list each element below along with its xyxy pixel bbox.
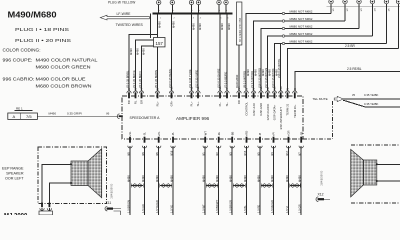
svg-text:M680 NOT M662: M680 NOT M662 [290, 17, 313, 21]
arrow LF-WIRE [100, 15, 149, 20]
wire 1.5 VI [288, 146, 290, 215]
svg-text:LF-WIRE: LF-WIRE [117, 12, 132, 16]
svg-text:TERM 31: TERM 31 [286, 103, 290, 115]
wire terminal 30 2.5 RE/BL [295, 72, 400, 91]
wire M680 NOT M662 #3 [261, 29, 359, 91]
wire terminal 1/5 drop [385, 4, 387, 44]
svg-text:GR: GR [140, 100, 144, 104]
wire speaker left + [42, 164, 71, 203]
svg-text:M680 COLOR BROWN: M680 COLOR BROWN [36, 84, 92, 89]
wire 1.5 BR/GN [129, 146, 131, 215]
wire terminal 1/3 drop [358, 4, 360, 29]
pin II/5 [259, 137, 261, 143]
wire bus to I/13 [219, 15, 221, 91]
svg-text:996 COUPE:: 996 COUPE: [3, 58, 33, 63]
svg-text:SPEAKER: SPEAKER [6, 172, 24, 176]
terminal 1/2 on bus [170, 0, 174, 4]
svg-text:M490: M490 [169, 175, 173, 182]
svg-text:RL+: RL+ [156, 101, 160, 107]
speaker right magnet [363, 160, 376, 185]
pin II/1 [204, 137, 206, 143]
node speaker right - [376, 180, 378, 182]
pin II/4 [273, 137, 275, 143]
svg-text:M490: M490 [192, 23, 196, 30]
amplifier 996 box [122, 96, 303, 139]
boundary dash-dot extension right of amplifier [303, 138, 333, 140]
pin I/3 [133, 91, 137, 93]
twisted pair splice 232.2-246.5 [232, 183, 234, 187]
svg-text:M490: M490 [254, 69, 258, 76]
svg-text:M680 NOT M662: M680 NOT M662 [290, 9, 313, 13]
terminal 1/4 top right [370, 0, 374, 4]
svg-text:M490: M490 [155, 175, 159, 182]
svg-text:M680 NOT M662: M680 NOT M662 [290, 32, 313, 36]
boundary door left (dash-dot) [38, 147, 107, 204]
wire terminal 1/2 drop [344, 4, 346, 21]
splice circle #4 [282, 35, 284, 37]
pin I/13 [218, 91, 222, 93]
svg-text:RHD M490: RHD M490 [235, 74, 239, 88]
svg-text:M490: M490 [202, 175, 206, 182]
terminal 1/3 on bus [189, 0, 193, 4]
svg-text:1.5 BR/WT: 1.5 BR/WT [215, 200, 219, 213]
speaker left magnet [71, 161, 88, 186]
connector X11 housing [114, 211, 121, 215]
pin I/16 [259, 91, 263, 93]
svg-text:SPEEDOMETER A: SPEEDOMETER A [130, 116, 161, 120]
svg-text:M490: M490 [129, 48, 133, 55]
wire 1.5 BR/GR [231, 146, 233, 215]
rail top right [327, 6, 400, 8]
wire 1.5 WT [204, 146, 206, 215]
svg-text:M490 COLOR NATURAL: M490 COLOR NATURAL [36, 58, 99, 63]
svg-text:SL+: SL+ [196, 101, 200, 106]
svg-text:PL+: PL+ [190, 101, 194, 106]
svg-text:2M4/5G/BY/D: 2M4/5G/BY/D [111, 183, 114, 198]
node speaker left + [70, 163, 72, 165]
boundary dash-dot vertical right [332, 101, 334, 139]
svg-text:2.5 RE/BL: 2.5 RE/BL [347, 67, 362, 71]
twisted pair splice 205.2-218.7 [205, 183, 207, 187]
twisted pair splice 158.7-173.0 [159, 183, 161, 187]
svg-text:+PI: +PI [272, 132, 276, 136]
svg-text:+SL: +SL [128, 131, 132, 136]
wire bus to 157 to I/5 [157, 15, 159, 38]
terminal 1/3 top right [357, 0, 361, 4]
splice circle #1 [282, 12, 284, 14]
splice circle #5 [282, 42, 284, 44]
terminal 1/5 top right [384, 0, 388, 4]
wire bus to I/12 [197, 15, 199, 91]
pin I/4 [139, 91, 143, 93]
svg-text:996 CABRIO:: 996 CABRIO: [3, 77, 35, 82]
wire terminal 1/1 drop [330, 4, 332, 14]
connector pin speaker left - [49, 203, 51, 208]
pin I/7 [225, 91, 229, 93]
svg-text:M490: M490 [270, 175, 274, 182]
svg-text:-SB: -SB [299, 132, 303, 137]
pin I/9 [244, 91, 248, 93]
wire M680 NOT M662 #2 [254, 21, 345, 91]
wire 1.5 YE [172, 146, 174, 215]
pin I/18 [279, 91, 283, 93]
svg-text:TERM 30+: TERM 30+ [293, 104, 297, 118]
svg-text:+RD: +RD [245, 131, 249, 137]
pin II/6 [158, 137, 160, 143]
svg-text:-PL: -PL [171, 132, 175, 137]
svg-text:-BB: -BB [230, 132, 234, 137]
svg-text:1.5 YE/GR: 1.5 YE/GR [155, 200, 159, 213]
svg-text:TEL MUTE: TEL MUTE [313, 97, 328, 101]
wire terminal 1/4 drop [371, 4, 373, 36]
svg-text:EEP RANGE: EEP RANGE [2, 167, 24, 171]
svg-text:2M4/5G/BY/D: 2M4/5G/BY/D [321, 170, 324, 185]
svg-text:M490: M490 [220, 23, 224, 30]
wire 157 to I/4 [142, 46, 154, 91]
svg-text:MJ 2000: MJ 2000 [4, 214, 28, 216]
wire 1.5 RE [259, 146, 261, 215]
connector pin speaker left + [41, 203, 43, 208]
svg-text:PL-: PL- [218, 102, 222, 106]
svg-text:7/5: 7/5 [26, 114, 32, 119]
node speaker left - [70, 182, 72, 184]
pin II/18 [172, 137, 174, 143]
svg-text:GSP+12V: GSP+12V [252, 103, 256, 116]
svg-text:0.35 YE/BK: 0.35 YE/BK [364, 93, 379, 97]
component box BP4 [237, 2, 242, 45]
pin II/3 [231, 137, 233, 143]
wire speaker right - [377, 180, 400, 182]
svg-text:1.5 BL: 1.5 BL [243, 205, 247, 213]
svg-text:M490: M490 [49, 112, 57, 116]
svg-text:BR: BR [127, 100, 131, 104]
svg-text:I/18 0.35 WT/BL: I/18 0.35 WT/BL [277, 58, 281, 78]
boundary door right top (dash-dot) [351, 144, 400, 146]
svg-text:M490: M490 [298, 175, 302, 182]
svg-text:PLUG I • 18 PINS: PLUG I • 18 PINS [15, 27, 69, 32]
svg-text:GSP-END: GSP-END [259, 103, 263, 116]
splice circle #2 [282, 20, 284, 22]
connector RE1 box [8, 113, 38, 119]
wire tel mute upper 0.35 YE/BK [343, 98, 400, 100]
terminal 1/2 top right [343, 0, 347, 4]
pin I/1 [285, 91, 289, 93]
pin II/8 [129, 137, 131, 143]
pin II/7 [300, 137, 302, 143]
pin II/15 [246, 137, 248, 143]
svg-text:M490: M490 [229, 175, 233, 182]
svg-text:1.5 BR/GN: 1.5 BR/GN [126, 200, 130, 213]
wire bus left drop [150, 14, 152, 39]
svg-text:1.5 GN: 1.5 GN [141, 204, 145, 213]
svg-text:M680 NOT M662: M680 NOT M662 [290, 39, 313, 43]
svg-text:1.5 BR/GR: 1.5 BR/GR [229, 200, 233, 213]
svg-text:M490: M490 [126, 175, 130, 182]
twisted pair splice 288.5-301.2 [289, 183, 291, 187]
pin I/1 [251, 91, 255, 93]
svg-text:1.5 VI: 1.5 VI [285, 206, 289, 213]
svg-text:M680 COLOR GREEN: M680 COLOR GREEN [36, 65, 91, 70]
boundary door right bottom (dash-dot) [351, 202, 400, 204]
svg-text:M490: M490 [256, 175, 260, 182]
wire terminal 31 2.5 BR [288, 48, 399, 90]
svg-text:X11: X11 [106, 201, 112, 205]
svg-text:GSP-CLOCK: GSP-CLOCK [266, 104, 270, 121]
svg-text:1.5 RE: 1.5 RE [256, 205, 260, 213]
wire 1.5 YE/GR [158, 146, 160, 215]
pin I/2 [293, 91, 297, 93]
svg-text:PLUG II • 20 PINS: PLUG II • 20 PINS [15, 38, 71, 43]
wire terminal 1/6 to 2.5 BR line [398, 4, 400, 49]
pin I/5 [155, 91, 159, 93]
terminal 1/1 top right [329, 0, 333, 4]
svg-text:A: A [12, 114, 15, 119]
svg-text:M490: M490 [136, 48, 140, 55]
svg-text:M490: M490 [142, 48, 146, 55]
svg-text:M490: M490 [243, 175, 247, 182]
pin II/2 [218, 137, 220, 143]
wire speaker right + [377, 163, 400, 165]
pin II/17 [288, 137, 290, 143]
svg-text:M490: M490 [141, 175, 145, 182]
terminal 1/6 on bus [224, 0, 228, 4]
svg-text:AMPLIFIER 996: AMPLIFIER 996 [176, 116, 210, 121]
svg-text:RE 1: RE 1 [16, 107, 23, 111]
splice box 157 [154, 38, 166, 47]
svg-text:M490: M490 [158, 21, 162, 28]
pin I/12 [196, 91, 200, 93]
svg-text:0.35 GR/PI: 0.35 GR/PI [67, 112, 82, 116]
wire bus to I/10 [171, 15, 173, 91]
svg-text:M490: M490 [285, 175, 289, 182]
connector X11 lug [105, 206, 107, 211]
svg-text:0.35 YE/BK: 0.35 YE/BK [364, 102, 379, 106]
svg-text:PLUG I/II YELLOW: PLUG I/II YELLOW [108, 1, 135, 5]
twisted pair splice 130.0-144.5 [130, 183, 132, 187]
svg-text:M490 COLOR BLUE: M490 COLOR BLUE [36, 77, 86, 82]
wire 1.5 RE/GR [273, 146, 275, 215]
wire M680 NOT M662 #1 [246, 14, 331, 91]
svg-text:-WT: -WT [203, 131, 207, 136]
wire tap to I/2 [129, 35, 158, 91]
pin II/9 [144, 137, 146, 143]
svg-text:M490: M490 [215, 175, 219, 182]
pin I/17 [266, 91, 270, 93]
terminal 1/6 top right [396, 0, 400, 4]
bus plug I/II [153, 12, 233, 14]
svg-text:2.5 BR: 2.5 BR [345, 44, 355, 48]
wire speaker left - [49, 183, 71, 203]
svg-text:M490: M490 [246, 69, 250, 76]
svg-text:ESP-INTERRUPT: ESP-INTERRUPT [279, 107, 283, 130]
socket I/6 at amplifier [117, 114, 119, 119]
terminal 1/4 on bus [196, 0, 200, 4]
svg-text:BP 4 M490 RHD 7/63: BP 4 M490 RHD 7/63 [239, 17, 242, 42]
twisted pair splice 260.0-273.5 [260, 183, 262, 187]
svg-text:1.5 RE/GR: 1.5 RE/GR [270, 200, 274, 213]
connector RE1 leader [15, 110, 33, 112]
svg-text:1.5 WT: 1.5 WT [202, 204, 206, 213]
svg-text:157: 157 [156, 41, 164, 46]
svg-text:GSP-DATA+: GSP-DATA+ [273, 104, 277, 120]
svg-text:RD: RD [237, 100, 241, 104]
svg-text:I/6: I/6 [106, 112, 110, 116]
arrow TEL MUTE [334, 96, 343, 101]
wire bus to I/11 [191, 15, 193, 91]
svg-text:CONTROL: CONTROL [244, 101, 248, 115]
wire ESP-INTERRUPT I/18 [280, 44, 282, 91]
pin I/19 [272, 91, 276, 93]
wire RE1 to speedometer input [37, 115, 117, 117]
svg-text:+GR: +GR [287, 131, 291, 137]
svg-text:X12: X12 [318, 192, 324, 196]
wire 1.5 BR/WT [218, 146, 220, 215]
svg-text:-PI: -PI [258, 133, 262, 137]
svg-text:M680 NOT M662: M680 NOT M662 [290, 24, 313, 28]
svg-text:M490: M490 [198, 23, 202, 30]
terminal 1/5 on bus [217, 0, 221, 4]
svg-text:-RL: -RL [217, 131, 221, 136]
svg-text:COLOR CODING:: COLOR CODING: [3, 48, 41, 53]
speaker right cone [351, 149, 364, 197]
svg-text:OOR LEFT: OOR LEFT [5, 177, 24, 181]
wire BP4 to I/14 [238, 45, 240, 91]
svg-text:1.5 YE: 1.5 YE [169, 205, 173, 213]
svg-text:SL-: SL- [225, 102, 229, 106]
svg-text:M690: M690 [227, 23, 231, 30]
svg-text:-SL: -SL [143, 132, 147, 137]
connector housing left speaker [39, 211, 53, 215]
speaker left cone [88, 149, 102, 198]
pin I/10 [169, 91, 173, 93]
terminal 1/1 on bus [157, 0, 161, 4]
wire 1.5 GR [300, 146, 302, 215]
svg-text:GR+: GR+ [170, 100, 174, 106]
wire 157 to I/3 [136, 40, 154, 90]
svg-text:TWISTED WIRES: TWISTED WIRES [116, 23, 144, 27]
svg-text:RL: RL [134, 100, 138, 104]
splice circle #3 [282, 27, 284, 29]
svg-text:+PL: +PL [157, 131, 161, 136]
svg-text:I/5: I/5 [352, 93, 356, 97]
node speaker right + [376, 163, 378, 165]
svg-text:M490/M680: M490/M680 [8, 10, 57, 20]
wire M680 NOT M662 #4 [268, 36, 373, 91]
pin I/2 [127, 91, 131, 93]
wire M680 NOT M662 #5 [275, 44, 387, 91]
wire bus to I/7 [226, 15, 228, 91]
wire 1.5 GN [144, 146, 146, 215]
svg-text:1.5 GR: 1.5 GR [298, 204, 302, 213]
wire tel mute lower 0.35 YE/BK [343, 100, 400, 107]
pin I/14 [237, 91, 241, 93]
pin I/11 [189, 91, 193, 93]
connector X12 lug [316, 197, 318, 202]
wire 1.5 BL [246, 146, 248, 215]
svg-text:M490: M490 [172, 21, 176, 28]
